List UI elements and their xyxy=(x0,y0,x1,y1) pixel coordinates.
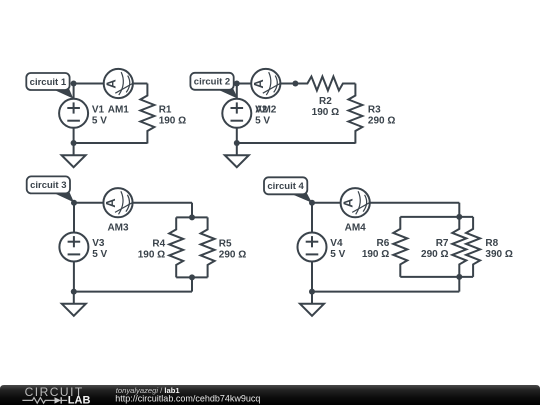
ground circuit 2 xyxy=(225,143,249,167)
node parallel top c4 xyxy=(456,214,462,220)
node circuit4 bottom xyxy=(309,289,315,295)
wire V2 bottom to ground node xyxy=(236,128,238,143)
resistor R2 xyxy=(295,77,355,119)
wire AM4 right to branch corner xyxy=(370,202,460,204)
wire parallel bottom node down c4 xyxy=(458,277,460,292)
wire node2 to V2 top xyxy=(236,84,238,99)
node parallel top c3 xyxy=(189,214,195,220)
ammeter AM4 xyxy=(340,188,369,234)
node parallel bottom c4 xyxy=(456,274,462,280)
wire bottom rail circuit 2 xyxy=(237,142,356,144)
resistor R1 xyxy=(140,84,186,144)
svg-text:R7: R7 xyxy=(436,238,449,249)
wire AM2 right to R2 node xyxy=(280,83,295,85)
ammeter AM3 xyxy=(103,188,132,234)
wire parallel top cross xyxy=(176,216,207,218)
svg-text:290 Ω: 290 Ω xyxy=(368,115,395,126)
resistor R7 xyxy=(421,217,466,277)
wire AM1 right to R1 top corner xyxy=(133,83,148,85)
svg-text:circuit 1: circuit 1 xyxy=(30,77,67,88)
wire V4 bottom to ground node xyxy=(311,261,313,291)
node circuit2 top xyxy=(234,81,240,87)
svg-text:5 V: 5 V xyxy=(330,249,345,260)
voltage source V2 xyxy=(222,99,270,128)
svg-text:R8: R8 xyxy=(485,238,498,249)
resistor R3 xyxy=(348,84,395,144)
label circuit 3 xyxy=(27,176,74,202)
node parallel bottom c3 xyxy=(189,274,195,280)
svg-text:290 Ω: 290 Ω xyxy=(421,249,448,260)
svg-text:circuit 2: circuit 2 xyxy=(194,77,230,88)
wire parallel bottom cross xyxy=(176,276,207,278)
wire node2 to AM2 left xyxy=(237,83,252,85)
wire AM3 right to branch corner xyxy=(133,202,192,204)
wire bottom rail circuit 4 xyxy=(312,291,459,293)
node circuit2 bottom xyxy=(234,140,240,146)
voltage source V3 xyxy=(59,233,107,262)
wire parallel bottom node down xyxy=(191,277,193,291)
svg-text:AM2: AM2 xyxy=(255,104,277,115)
svg-text:circuit 4: circuit 4 xyxy=(267,181,304,192)
ammeter AM2 xyxy=(251,69,280,115)
svg-text:R1: R1 xyxy=(159,104,172,115)
svg-text:R5: R5 xyxy=(219,238,232,249)
wire V3 bottom to ground node xyxy=(73,261,75,291)
resistor R8 xyxy=(466,217,513,277)
wire node4 to V4 top xyxy=(311,203,313,233)
svg-text:R3: R3 xyxy=(368,104,381,115)
wire node1 to V1 top xyxy=(73,84,75,99)
svg-text:V4: V4 xyxy=(330,238,343,249)
svg-text:AM4: AM4 xyxy=(345,223,367,234)
ammeter AM1 xyxy=(104,69,133,115)
wire node3 to AM3 left xyxy=(74,202,103,204)
wire V1 bottom to ground node xyxy=(73,128,75,143)
svg-text:R2: R2 xyxy=(319,96,332,107)
ground circuit 3 xyxy=(62,292,86,316)
svg-text:AM3: AM3 xyxy=(107,223,129,234)
ground circuit 1 xyxy=(62,143,86,167)
svg-text:V1: V1 xyxy=(92,105,105,116)
wire down to parallel top node c4 xyxy=(458,203,460,217)
svg-text:A: A xyxy=(103,198,118,208)
wire node4 to AM4 left xyxy=(312,202,341,204)
svg-text:190 Ω: 190 Ω xyxy=(138,249,165,260)
svg-text:R6: R6 xyxy=(377,238,390,249)
wire parallel top cross c4 xyxy=(400,216,473,218)
svg-text:190 Ω: 190 Ω xyxy=(312,107,339,118)
label circuit 2 xyxy=(190,73,238,99)
svg-text:http://circuitlab.com/cehdb74k: http://circuitlab.com/cehdb74kw9ucq xyxy=(115,393,260,403)
wire bottom rail circuit 1 xyxy=(74,142,148,144)
svg-text:5 V: 5 V xyxy=(92,116,107,127)
ground circuit 4 xyxy=(300,292,324,316)
node circuit3 top xyxy=(71,200,77,206)
svg-text:5 V: 5 V xyxy=(255,116,270,127)
svg-text:LAB: LAB xyxy=(68,394,91,405)
resistor R6 xyxy=(362,217,407,277)
svg-text:A: A xyxy=(104,79,119,89)
svg-text:circuit 3: circuit 3 xyxy=(30,180,66,191)
voltage source V1 xyxy=(59,99,107,128)
CircuitLab logo diode xyxy=(55,397,68,403)
node AM2-R2 xyxy=(292,81,298,87)
svg-text:190 Ω: 190 Ω xyxy=(362,249,389,260)
svg-text:290 Ω: 290 Ω xyxy=(219,249,246,260)
svg-text:R4: R4 xyxy=(152,238,165,249)
svg-text:A: A xyxy=(251,79,266,89)
node circuit4 top xyxy=(309,200,315,206)
wire node1 to AM1 left xyxy=(74,83,104,85)
node circuit1 bottom xyxy=(71,140,77,146)
svg-text:AM1: AM1 xyxy=(108,104,130,115)
svg-text:5 V: 5 V xyxy=(92,249,107,260)
wire bottom rail circuit 3 xyxy=(74,291,192,293)
resistor R4 xyxy=(138,217,183,277)
node circuit3 bottom xyxy=(71,289,77,295)
svg-text:V3: V3 xyxy=(92,238,105,249)
svg-text:390 Ω: 390 Ω xyxy=(485,249,512,260)
resistor R5 xyxy=(201,217,247,277)
label circuit 4 xyxy=(264,177,312,202)
label circuit 1 xyxy=(26,73,73,99)
svg-text:190 Ω: 190 Ω xyxy=(159,115,186,126)
wire down to parallel top node xyxy=(191,203,193,218)
node circuit1 top xyxy=(71,81,77,87)
wire node3 to V3 top xyxy=(73,203,75,233)
voltage source V4 xyxy=(298,233,346,262)
svg-text:A: A xyxy=(340,198,355,208)
CircuitLab logo squiggle wire xyxy=(22,398,54,404)
wire parallel bottom cross c4 xyxy=(400,276,473,278)
